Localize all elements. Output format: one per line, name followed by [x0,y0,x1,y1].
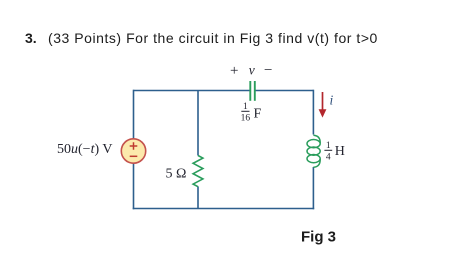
wire: right side upper segment [312,90,314,135]
svg-text:16: 16 [241,113,251,123]
voltage source minus sign [130,155,138,157]
wire: top side right segment (capacitor to top-right corner) [255,90,314,92]
svg-text:F: F [254,107,262,122]
current arrow i (shaft) [322,92,324,112]
svg-text:v: v [249,63,255,78]
current arrow i (head) [319,109,327,117]
svg-text:−: − [264,62,272,78]
wire: right side lower segment [312,167,314,209]
wire: middle branch lower segment [197,187,199,209]
svg-text:i: i [330,93,334,108]
capacitor plate right [254,81,256,101]
voltage source plus sign [130,142,138,150]
wire: middle branch upper segment [197,91,199,156]
svg-text:5 Ω: 5 Ω [166,167,187,182]
wire: bottom side [133,208,315,210]
svg-text:H: H [335,144,345,159]
svg-text:+: + [230,63,238,79]
svg-text:3.: 3. [25,30,37,46]
svg-text:(33 Points) For the circuit in: (33 Points) For the circuit in Fig 3 fin… [48,30,378,46]
svg-text:Fig 3: Fig 3 [301,229,336,246]
resistor R zigzag [193,156,203,187]
wire: top side left segment (top-left corner to capacitor) [134,90,251,92]
svg-text:1: 1 [326,141,331,151]
inductor L coil [307,135,320,167]
svg-text:50u(−t) V: 50u(−t) V [57,142,112,157]
voltage source circle [121,139,145,163]
wire: left side lower segment [133,163,135,209]
wire: left side upper segment [133,90,135,139]
capacitor plate left [249,81,251,101]
svg-text:1: 1 [243,102,248,112]
svg-text:4: 4 [326,152,331,162]
